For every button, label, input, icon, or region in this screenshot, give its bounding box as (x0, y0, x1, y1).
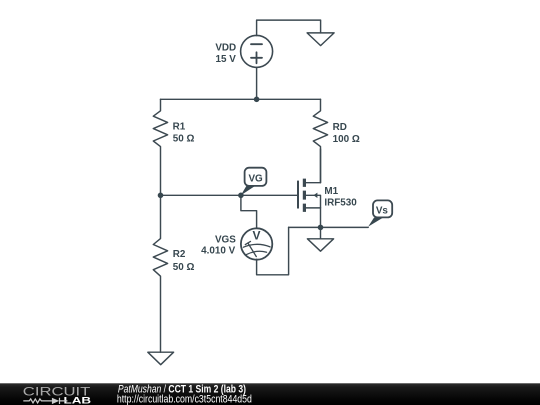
svg-text:50 Ω: 50 Ω (173, 262, 195, 273)
svg-text:R2: R2 (173, 249, 186, 260)
svg-text:VG: VG (248, 174, 263, 185)
svg-text:http://circuitlab.com/c3t5cnt8: http://circuitlab.com/c3t5cnt844d5d (117, 393, 252, 405)
svg-text:R1: R1 (173, 122, 186, 133)
svg-text:VGS: VGS (215, 235, 236, 246)
svg-text:M1: M1 (324, 186, 338, 197)
svg-text:Vs: Vs (376, 206, 389, 217)
svg-text:4.010 V: 4.010 V (201, 246, 235, 257)
svg-text:100 Ω: 100 Ω (333, 134, 360, 145)
svg-text:IRF530: IRF530 (324, 198, 357, 209)
svg-text:50 Ω: 50 Ω (173, 133, 195, 144)
svg-text:LAB: LAB (64, 396, 92, 405)
svg-text:RD: RD (333, 122, 347, 133)
svg-text:V: V (252, 229, 260, 243)
svg-text:15 V: 15 V (215, 54, 236, 65)
svg-text:VDD: VDD (215, 42, 236, 53)
